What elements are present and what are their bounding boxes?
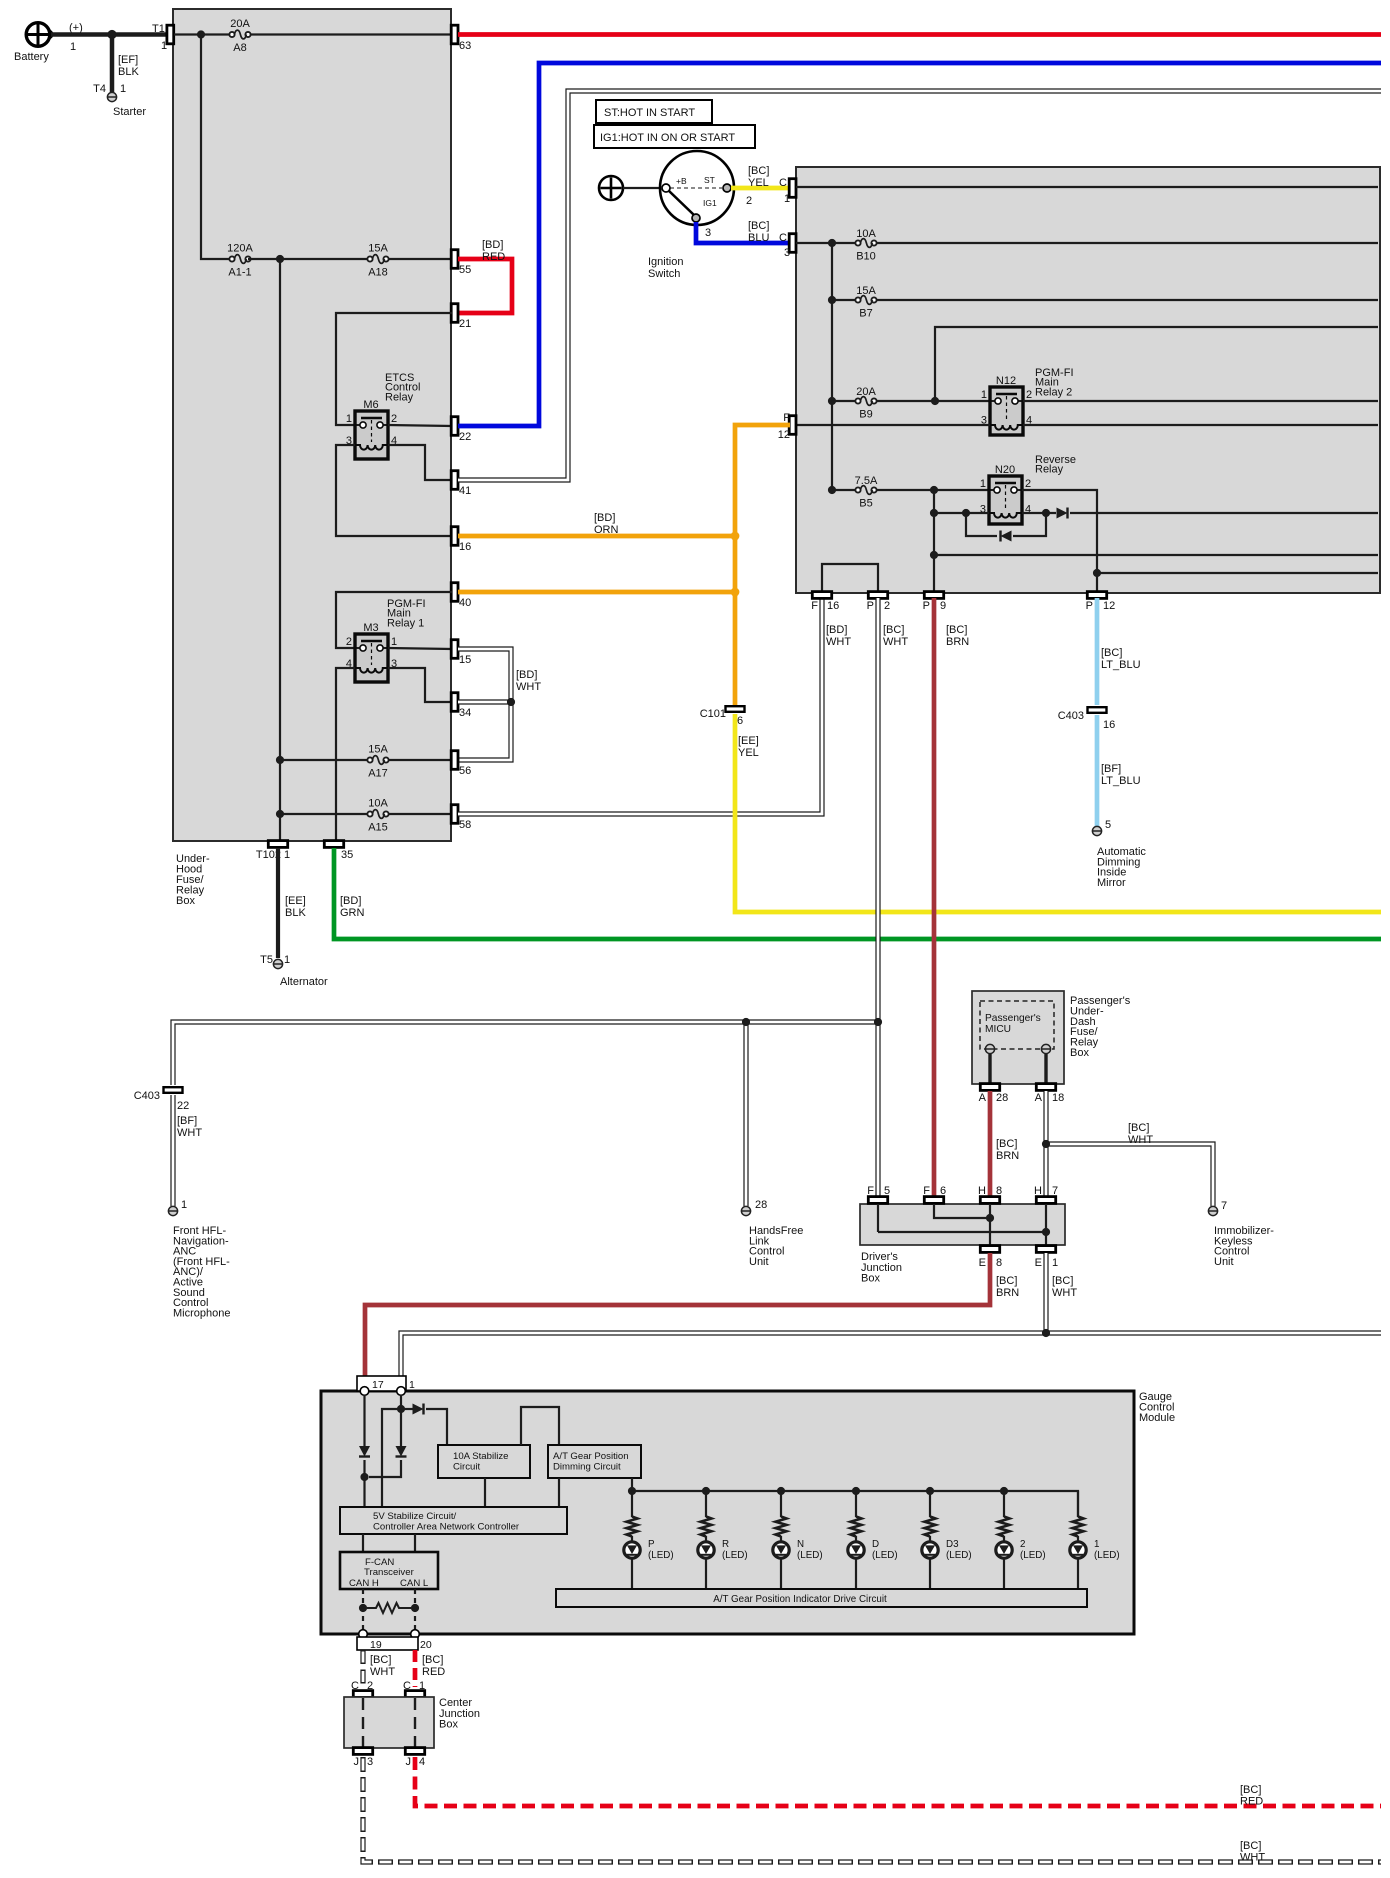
diode pin17 [359, 1446, 370, 1457]
wire micu to A18 [1044, 1054, 1047, 1084]
svg-text:1: 1 [419, 1680, 425, 1692]
node b10 [828, 239, 836, 247]
svg-text:63: 63 [459, 40, 471, 52]
svg-text:BRN: BRN [946, 636, 969, 648]
connector C2 [351, 1680, 373, 1697]
wire M3 pin3 to pin 34 [388, 668, 452, 702]
wire battery to T1 [51, 32, 170, 37]
svg-text:F: F [867, 1185, 874, 1197]
fuse 15A A18 [367, 243, 388, 279]
svg-text:P: P [867, 600, 874, 612]
wire [BD] red battery feed (pin 63) [458, 32, 1381, 37]
relay M3 PGM-FI Main Relay 1 [346, 598, 426, 682]
svg-text:2: 2 [1026, 389, 1032, 401]
svg-text:CAN L: CAN L [400, 1578, 429, 1589]
wire LED feed bus [632, 1491, 1078, 1517]
wire [BF] WHT microphone [173, 1095, 202, 1211]
svg-text:E: E [979, 1257, 986, 1269]
svg-text:(LED): (LED) [946, 1550, 972, 1561]
node 120A output [276, 255, 284, 263]
svg-text:BLU: BLU [748, 232, 769, 244]
wire [BC] RED dashed 20 [415, 1650, 445, 1687]
svg-text:RED: RED [482, 251, 505, 263]
svg-text:ST: ST [704, 175, 715, 185]
svg-text:Circuit: Circuit [453, 1462, 481, 1473]
node trunk A17 [276, 756, 284, 764]
fuse 7.5A B5 [855, 475, 878, 510]
svg-text:C: C [351, 1680, 359, 1692]
svg-text:22: 22 [459, 431, 471, 443]
svg-text:8: 8 [996, 1257, 1002, 1269]
svg-text:1: 1 [181, 1199, 187, 1211]
wire H7 internal [1045, 1204, 1047, 1245]
connector C3 [779, 232, 796, 259]
svg-text:Box: Box [1070, 1047, 1089, 1059]
svg-text:28: 28 [996, 1092, 1008, 1104]
5V Stabilize block [340, 1507, 567, 1534]
A/T Gear Position Dimming Circuit block [548, 1445, 641, 1478]
resistor LED R [701, 1491, 712, 1537]
svg-text:7.5A: 7.5A [855, 475, 878, 487]
svg-text:1: 1 [70, 41, 76, 53]
wire M6 pin2 to pin 22 [388, 425, 452, 426]
svg-text:BRN: BRN [996, 1150, 1019, 1162]
svg-text:16: 16 [459, 541, 471, 553]
diode pin1 down [396, 1446, 407, 1457]
svg-text:22: 22 [177, 1100, 189, 1112]
svg-text:P: P [1086, 600, 1093, 612]
relay M6 ETCS Control Relay [346, 372, 421, 459]
svg-text:(+): (+) [69, 22, 83, 34]
wire 10A to 5V [484, 1478, 486, 1507]
node CAN H [359, 1604, 367, 1612]
svg-text:ST:HOT IN START: ST:HOT IN START [604, 107, 695, 119]
connector pin 40 [451, 583, 471, 609]
wire white microphone bus [173, 1022, 878, 1085]
wire [BC] WHT dashed 19 [363, 1650, 395, 1687]
svg-text:F: F [783, 412, 790, 424]
svg-text:[BD]: [BD] [516, 669, 537, 681]
svg-text:D: D [872, 1539, 879, 1550]
svg-text:20: 20 [420, 1639, 432, 1651]
svg-text:[EF]: [EF] [118, 54, 138, 66]
svg-text:M6: M6 [363, 399, 378, 411]
resistor LED N [776, 1491, 787, 1537]
svg-text:(LED): (LED) [1020, 1550, 1046, 1561]
wire [BC] LT_BLU P12 down [1095, 598, 1100, 705]
svg-text:Box: Box [176, 895, 195, 907]
svg-text:RED: RED [422, 1666, 445, 1678]
Passenger Under-Dash Fuse/Relay Box [972, 991, 1131, 1084]
svg-text:RED: RED [1240, 1796, 1263, 1808]
LED P [624, 1536, 674, 1589]
svg-text:[BC]: [BC] [883, 624, 904, 636]
node p9 coil [930, 509, 938, 517]
svg-text:A18: A18 [368, 267, 388, 279]
svg-text:[BC]: [BC] [370, 1654, 391, 1666]
svg-text:15A: 15A [368, 744, 388, 756]
alternator terminal [273, 959, 328, 988]
svg-text:6: 6 [737, 715, 743, 727]
wire [EE] YEL [735, 714, 1381, 912]
svg-text:58: 58 [459, 819, 471, 831]
label BC WHT P2 [883, 624, 908, 648]
svg-text:35: 35 [341, 849, 353, 861]
svg-text:[BC]: [BC] [1240, 1784, 1261, 1796]
connector pin 35 [324, 841, 353, 861]
svg-text:WHT: WHT [516, 681, 541, 693]
wire 120A trunk down [279, 259, 281, 841]
wire white pin41 top feed [458, 91, 1381, 480]
immobilizer terminal [1208, 1206, 1274, 1268]
svg-text:N12: N12 [996, 375, 1016, 387]
wire B5 row [832, 489, 989, 491]
svg-text:MICU: MICU [985, 1024, 1011, 1035]
svg-text:YEL: YEL [748, 177, 769, 189]
svg-text:Controller Area Network Contro: Controller Area Network Controller [373, 1522, 520, 1533]
wire C3/B10 row [796, 242, 1378, 244]
wire [EE] BLK to alternator [260, 848, 306, 966]
connector F6 [923, 1185, 946, 1203]
svg-text:Microphone: Microphone [173, 1307, 230, 1319]
svg-text:IG1: IG1 [703, 198, 717, 208]
node row 573 [1093, 569, 1101, 577]
svg-text:A: A [979, 1092, 987, 1104]
node pin17/pin1 join [360, 1473, 368, 1481]
node immobilizer tap [1042, 1140, 1050, 1148]
wire 120A to A18 fuse and pin 55 [248, 258, 452, 260]
svg-text:C: C [779, 177, 787, 189]
node H7-F5 [1042, 1228, 1050, 1236]
connector C101 [700, 706, 745, 727]
connector pin 22 [451, 417, 471, 443]
connector H8 [978, 1185, 1002, 1203]
svg-text:12: 12 [1103, 600, 1115, 612]
svg-text:[BD]: [BD] [340, 895, 361, 907]
LED R [698, 1536, 748, 1589]
wire M6 pin4 to pin 41 [388, 445, 452, 480]
svg-text:N: N [797, 1539, 804, 1550]
svg-text:WHT: WHT [370, 1666, 395, 1678]
wire [BC] BRN A28 to H8 [990, 1091, 1019, 1197]
svg-text:Relay 2: Relay 2 [1035, 386, 1072, 398]
svg-text:Switch: Switch [648, 268, 680, 280]
fuse 10A B10 [855, 228, 876, 263]
svg-text:7: 7 [1221, 1200, 1227, 1212]
svg-text:[BD]: [BD] [482, 239, 503, 251]
wire B7 row [832, 299, 1378, 301]
svg-text:12: 12 [778, 429, 790, 441]
connector 19/20 block [357, 1637, 432, 1651]
svg-text:9: 9 [940, 600, 946, 612]
wire [BD] WHT loop 15/34/56 [458, 649, 541, 760]
wire N12 pin2 out [1023, 400, 1378, 402]
svg-text:Dimming Circuit: Dimming Circuit [553, 1462, 621, 1473]
svg-text:Passenger's: Passenger's [985, 1013, 1041, 1024]
node F5 tap [874, 1018, 882, 1026]
svg-text:[BC]: [BC] [1052, 1275, 1073, 1287]
diode pin1 right [413, 1404, 424, 1415]
svg-text:10A Stabilize: 10A Stabilize [453, 1451, 508, 1462]
svg-text:LT_BLU: LT_BLU [1101, 775, 1141, 787]
svg-text:B5: B5 [859, 498, 872, 510]
svg-text:2: 2 [367, 1680, 373, 1692]
svg-text:F: F [923, 1185, 930, 1197]
svg-text:2: 2 [346, 636, 352, 648]
svg-text:(LED): (LED) [722, 1550, 748, 1561]
svg-text:1: 1 [981, 389, 987, 401]
svg-text:+B: +B [676, 176, 687, 186]
svg-text:3: 3 [784, 247, 790, 259]
wire 5V to FCAN h [362, 1534, 364, 1552]
svg-text:C403: C403 [134, 1090, 160, 1102]
wire [BD] GRN [334, 848, 1381, 939]
note box ST:HOT IN START [596, 100, 712, 123]
connector H7 [1034, 1185, 1058, 1203]
wire A15 row [280, 813, 452, 815]
connector F16 [811, 592, 839, 612]
node orn 16 [731, 532, 740, 541]
svg-text:Transceiver: Transceiver [364, 1567, 415, 1578]
wire dimming to 5V [558, 1478, 560, 1507]
Center Junction Box [344, 1697, 480, 1748]
resistor LED 2 [999, 1491, 1010, 1537]
connector J4 [405, 1748, 425, 1768]
connector A28 [979, 1084, 1009, 1104]
wire source to +B [623, 187, 663, 189]
pin 19 socket [359, 1630, 368, 1639]
connector 17/1 block [357, 1376, 415, 1391]
svg-text:40: 40 [459, 597, 471, 609]
connector pin 56 [451, 751, 471, 777]
under-dash fuse/relay box (right) [796, 167, 1380, 593]
wire white pin58 to F16 [458, 597, 822, 814]
svg-text:[BD]: [BD] [826, 624, 847, 636]
svg-text:Battery: Battery [14, 51, 49, 63]
node B5 out [930, 486, 938, 494]
svg-text:10A: 10A [368, 798, 388, 810]
wire A17 row [280, 759, 452, 761]
mirror terminal [1092, 826, 1146, 889]
wire bridge 10A to dimming [521, 1407, 559, 1445]
svg-text:16: 16 [1103, 719, 1115, 731]
battery source symbol at ignition [599, 176, 623, 200]
svg-text:A1-1: A1-1 [228, 267, 251, 279]
svg-text:[BC]: [BC] [748, 220, 769, 232]
svg-text:Box: Box [861, 1273, 880, 1285]
wire F6 internal [934, 1204, 990, 1218]
svg-text:WHT: WHT [1240, 1852, 1265, 1864]
svg-text:15: 15 [459, 654, 471, 666]
label BC RED bottom [1240, 1784, 1263, 1808]
node LED P feed [628, 1487, 636, 1495]
svg-text:YEL: YEL [738, 747, 759, 759]
svg-text:16: 16 [827, 600, 839, 612]
svg-text:(LED): (LED) [797, 1550, 823, 1561]
wire CAN L dashed [414, 1589, 416, 1631]
connector J3 [353, 1748, 373, 1768]
wire pin17 internal [363, 1395, 365, 1507]
svg-text:2: 2 [1025, 478, 1031, 490]
wire H8 internal [989, 1204, 991, 1245]
connector P9 [923, 592, 946, 612]
svg-text:WHT: WHT [177, 1127, 202, 1139]
fuse 20A B9 [855, 386, 876, 421]
node pin1 branch [397, 1405, 405, 1413]
svg-text:WHT: WHT [826, 636, 851, 648]
node b9 [828, 397, 836, 405]
LED 1 [1070, 1536, 1120, 1589]
svg-text:Unit: Unit [1214, 1256, 1234, 1268]
node white loop junction [507, 698, 515, 706]
svg-text:[BC]: [BC] [748, 165, 769, 177]
connector F5 [867, 1185, 890, 1203]
svg-text:[BF]: [BF] [177, 1115, 197, 1127]
svg-text:F: F [811, 600, 818, 612]
wire [BC] WHT E1 to gauge pin1 [1046, 1253, 1077, 1331]
svg-text:5: 5 [1105, 819, 1111, 831]
wire M3 pin4 to pin 35 [336, 668, 355, 841]
F-CAN Transceiver block [340, 1552, 438, 1589]
node trunk A15 [276, 810, 284, 818]
node top feed [197, 30, 205, 38]
wire M3 pin1 to pin 15 [388, 648, 452, 649]
wire P9 vertical [933, 490, 935, 591]
wire white bus row 1333 [401, 1333, 1381, 1389]
connector C1 [779, 177, 796, 205]
wire N12 pin4 out [1023, 424, 1378, 426]
svg-text:41: 41 [459, 485, 471, 497]
svg-text:4: 4 [419, 1756, 425, 1768]
svg-text:Box: Box [439, 1719, 458, 1731]
svg-text:2: 2 [884, 600, 890, 612]
wire pin40 to M3 pin2 [336, 592, 452, 648]
svg-text:M3: M3 [363, 622, 378, 634]
wire [BC] WHT A18 to H7 [1043, 1091, 1048, 1197]
wire coil row to N20 pin3 [934, 512, 989, 514]
svg-text:1: 1 [409, 1379, 415, 1391]
wire [BC] RED dashed bottom [415, 1757, 1381, 1806]
fuse 20A A8 [229, 18, 250, 54]
connector pin 15 [451, 640, 471, 666]
svg-text:1: 1 [1094, 1539, 1099, 1550]
connector T102 [256, 841, 290, 861]
wire [BD] ORN to F12 [735, 425, 790, 709]
wire F16-P2 bridge [822, 564, 878, 591]
svg-text:6: 6 [940, 1185, 946, 1197]
wire N20 pin4 to diode out [1022, 512, 1378, 514]
Driver's Junction Box [860, 1204, 1065, 1285]
wire dimming to led bus [631, 1478, 633, 1491]
svg-text:B7: B7 [859, 308, 872, 320]
svg-text:3: 3 [367, 1756, 373, 1768]
fuse 15A B7 [855, 285, 876, 320]
node H8-F6 [986, 1214, 994, 1222]
node LED 2 feed [1000, 1487, 1008, 1495]
node orn 40 [731, 588, 740, 597]
svg-text:[EE]: [EE] [738, 735, 759, 747]
wire micu to A28 [988, 1054, 991, 1084]
svg-text:[BC]: [BC] [946, 624, 967, 636]
pin 20 socket [411, 1630, 420, 1639]
svg-text:R: R [722, 1539, 729, 1550]
wire [BC] WHT dashed bottom [363, 1757, 1381, 1862]
connector pin 34 [451, 693, 471, 719]
svg-text:LT_BLU: LT_BLU [1101, 659, 1141, 671]
svg-text:[BC]: [BC] [422, 1654, 443, 1666]
connector C403 pin16 [1058, 707, 1116, 731]
wire B9 row [832, 400, 990, 402]
svg-text:GRN: GRN [340, 907, 365, 919]
battery [14, 22, 83, 63]
svg-text:J: J [354, 1756, 360, 1768]
svg-text:1: 1 [784, 193, 790, 205]
svg-text:55: 55 [459, 264, 471, 276]
wire [BC] YEL ST to C1 [731, 165, 790, 207]
svg-text:[BF]: [BF] [1101, 763, 1121, 775]
svg-text:34: 34 [459, 707, 471, 719]
node coil right [1042, 509, 1050, 517]
fuse 15A A17 [367, 744, 388, 780]
svg-text:BRN: BRN [996, 1287, 1019, 1299]
connector E1 [1035, 1246, 1058, 1269]
wire N20 pin2 to P12 [1022, 490, 1097, 591]
diode reverse output [1057, 508, 1068, 519]
svg-text:H: H [978, 1185, 986, 1197]
wire [BC] WHT P2 to F5 [875, 598, 880, 1197]
svg-text:21: 21 [459, 318, 471, 330]
svg-text:C403: C403 [1058, 710, 1084, 722]
svg-text:1: 1 [391, 636, 397, 648]
wire [BC] BLU IG1 to C3 [696, 220, 790, 244]
svg-text:T1: T1 [152, 23, 165, 35]
connector P2 [867, 592, 890, 612]
svg-text:C: C [403, 1680, 411, 1692]
svg-text:WHT: WHT [883, 636, 908, 648]
LED 2 [996, 1536, 1046, 1589]
node CAN L [411, 1604, 419, 1612]
svg-text:1: 1 [284, 849, 290, 861]
wire C1-J4 internal dashed [414, 1698, 416, 1747]
svg-text:[EE]: [EE] [285, 895, 306, 907]
svg-text:(LED): (LED) [648, 1550, 674, 1561]
fuse 120A A1-1 [227, 243, 253, 279]
connector pin 16 [451, 527, 471, 553]
svg-text:Relay: Relay [1035, 464, 1064, 476]
wire [BD] BLU ignition feed [458, 63, 1381, 426]
svg-text:(LED): (LED) [872, 1550, 898, 1561]
svg-text:H: H [1034, 1185, 1042, 1197]
connector pin 41 [451, 471, 471, 497]
svg-text:1: 1 [120, 83, 126, 95]
connector P12 [1086, 592, 1116, 612]
svg-text:1: 1 [161, 40, 167, 52]
svg-text:1: 1 [284, 954, 290, 966]
connector E8 [979, 1246, 1002, 1269]
svg-text:Ignition: Ignition [648, 256, 683, 268]
svg-text:P: P [648, 1539, 655, 1550]
connector pin 63 [451, 25, 471, 52]
svg-text:2: 2 [391, 413, 397, 425]
svg-text:ORN: ORN [594, 524, 619, 536]
svg-text:7: 7 [1052, 1185, 1058, 1197]
connector A18 [1035, 1084, 1065, 1104]
wire C2-J3 internal dashed [362, 1698, 364, 1747]
wire pin1 right branch [401, 1409, 447, 1445]
svg-text:28: 28 [755, 1199, 767, 1211]
node LED D feed [852, 1487, 860, 1495]
svg-text:1: 1 [980, 478, 986, 490]
